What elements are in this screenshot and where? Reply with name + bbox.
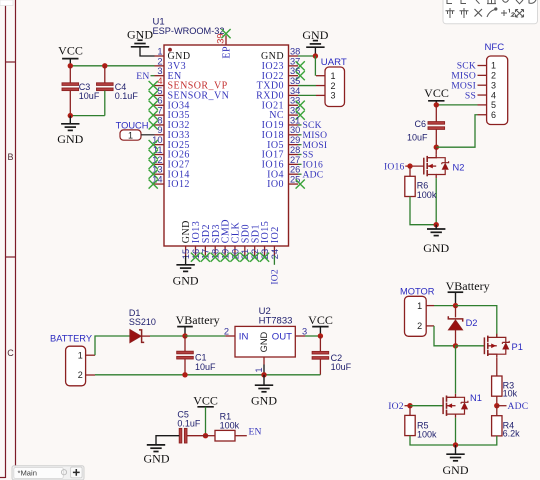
frame bottom-left corner line — [0, 477, 6, 479]
wire ground flag stem to node — [314, 47, 316, 56]
U1 pin 27 (IO16) — [262, 155, 301, 171]
U1 pin 35 (TXD0) — [257, 76, 301, 92]
wire N1 source down to GND rail — [455, 418, 457, 445]
U1 pin 2 (3V3) — [155, 56, 187, 72]
resistor R3 — [492, 376, 502, 396]
wire N2 source down to GND node — [435, 178, 437, 225]
net label MOSI at U1 pin 29 — [298, 144, 302, 146]
junction node GND/C3 bottom — [68, 113, 73, 118]
svg-text:ADC: ADC — [303, 169, 324, 180]
wire VCC rail to pin 2 (3V3) — [70, 65, 154, 67]
wire MOTOR pin1 to VBattery node — [434, 305, 456, 307]
svg-text:IO2: IO2 — [270, 269, 281, 285]
ground (U2) — [251, 375, 277, 408]
U1 pin 6 (IO34) — [149, 96, 190, 112]
power flag VCC (EN divider) — [193, 394, 218, 408]
wire U1 pin 38 to node — [298, 55, 315, 57]
power flag VCC (U2 out) — [308, 313, 333, 336]
svg-text:1: 1 — [491, 61, 496, 71]
U1 pin 9 (IO33) — [155, 125, 190, 141]
svg-text:2: 2 — [78, 370, 83, 380]
junction node C4 top — [102, 63, 107, 68]
svg-text:3: 3 — [491, 80, 496, 90]
U1 pin 1 (GND) — [155, 46, 191, 62]
U1 pin 10 (IO25) — [149, 135, 190, 151]
svg-text:VCC: VCC — [424, 86, 449, 100]
U1 pin 21 (SD0) bottom — [240, 224, 251, 262]
svg-text:31: 31 — [290, 115, 300, 125]
svg-text:7: 7 — [157, 106, 162, 116]
net label SCK at U1 pin 31 — [298, 124, 302, 126]
U1 pin 18 (SD3) bottom — [211, 224, 222, 262]
toolbar row2 icon: pen/wire — [487, 8, 497, 17]
wire RXD0 (pin34) to UART pin 3 — [298, 94, 316, 96]
wire N2 drain to C6 node — [435, 147, 437, 154]
connector UART — [316, 57, 347, 106]
U1 pin 25 (IO0) — [267, 174, 305, 190]
wire R5 top lead — [409, 406, 411, 416]
junction node C5/R1 — [203, 433, 208, 438]
svg-text:NFC: NFC — [485, 42, 505, 53]
wire VCC stem to node — [435, 101, 437, 105]
net label ADC — [497, 405, 507, 407]
top-left corner white box — [0, 0, 13, 6]
svg-text:26: 26 — [290, 165, 300, 175]
regulator U2 HT7833 — [224, 306, 307, 372]
svg-text:100k: 100k — [220, 421, 240, 431]
svg-text:2: 2 — [157, 56, 162, 66]
svg-text:0.1uF: 0.1uF — [115, 91, 139, 101]
svg-text:27: 27 — [290, 155, 300, 165]
U1 pin 15 (GND) bottom — [181, 220, 192, 259]
svg-text:6.2k: 6.2k — [503, 428, 521, 438]
svg-text:1: 1 — [157, 46, 162, 56]
sheet frame outer border line — [5, 0, 7, 478]
toolbar row2 icon: net flag 1 — [446, 8, 455, 18]
svg-text:1: 1 — [330, 71, 335, 81]
svg-text:MOTOR: MOTOR — [400, 286, 435, 296]
svg-text:3: 3 — [330, 91, 335, 101]
toolbar row2 icon: net flag 2 — [460, 8, 469, 18]
svg-text:GND: GND — [57, 132, 83, 146]
ground flag (U1 pin 38) — [302, 28, 328, 47]
svg-text:100k: 100k — [417, 430, 437, 440]
power flag VBattery — [176, 313, 220, 336]
svg-text:IO2: IO2 — [270, 226, 281, 243]
U1 pin 20 (CLK) bottom — [230, 222, 241, 262]
chip U1 pin-1 marker dot — [168, 48, 172, 52]
capacitor C5 — [177, 409, 205, 443]
ground (U1 pin 15) — [173, 265, 199, 288]
svg-text:4: 4 — [491, 90, 496, 100]
U1 pin 34 (RXD0) — [256, 86, 300, 102]
sheet tab bar panel — [12, 466, 84, 480]
U1 pin 11 (IO26) — [149, 145, 190, 161]
junction node D2/gate rail — [453, 343, 458, 348]
U1 pin 24 (IO2) bottom — [270, 226, 281, 259]
junction node N2 gate / R6 — [407, 163, 412, 168]
net label IO2 at U1 pin 24 — [273, 256, 275, 265]
capacitor C1 — [177, 336, 216, 375]
svg-text:8: 8 — [157, 115, 162, 125]
svg-text:VCC: VCC — [58, 44, 83, 58]
wire R3 bottom to ADC node — [496, 396, 498, 406]
svg-text:B: B — [7, 152, 13, 162]
wire VCC stem down to node — [205, 407, 207, 436]
diode D1 — [129, 308, 156, 343]
junction node VBattery/C1 — [182, 333, 187, 338]
svg-text:2: 2 — [417, 321, 422, 331]
svg-text:10uF: 10uF — [331, 362, 352, 372]
net port TOUCH — [116, 121, 149, 141]
transistor N1 (N-MOSFET) — [443, 393, 482, 418]
svg-text:3: 3 — [157, 66, 162, 76]
ground (C5) — [144, 445, 170, 466]
svg-text:N2: N2 — [453, 162, 465, 172]
resistor R1 — [206, 411, 247, 441]
svg-text:VBattery: VBattery — [446, 279, 490, 293]
junction node pin38/UART — [313, 53, 318, 58]
U1 pin 38 (GND) — [261, 46, 300, 62]
resistor R6 — [405, 176, 415, 196]
junction node VCC/C3 — [68, 63, 73, 68]
svg-text:D2: D2 — [466, 318, 478, 328]
U1 pin 13 (IO14) — [149, 165, 190, 181]
connector BATTERY — [50, 333, 95, 386]
wire R6 bottom to GND rail — [410, 197, 436, 225]
wire TXD0 (pin35) to UART pin 2 — [298, 85, 316, 87]
svg-text:1: 1 — [417, 301, 422, 311]
U1 pin 5 (SENSOR_VN) — [149, 86, 230, 102]
svg-text:P1: P1 — [512, 342, 523, 352]
svg-text:38: 38 — [290, 46, 300, 56]
U1 pin 29 (IO5) — [267, 135, 300, 151]
junction node GND (NFC section) — [434, 222, 439, 227]
wire IO2 to N1 gate — [405, 405, 411, 407]
wire N1 drain up to gate rail node — [455, 346, 457, 394]
junction node VCC/C2 — [318, 333, 323, 338]
svg-text:C6: C6 — [414, 119, 426, 129]
junction node VCC/C6 top — [434, 102, 439, 107]
svg-text:IO2: IO2 — [388, 401, 404, 412]
svg-text:2: 2 — [491, 71, 496, 81]
sheet frame inner border line — [15, 0, 17, 466]
svg-text:10uF: 10uF — [79, 91, 100, 101]
wire R4 bottom to GND rail — [456, 436, 497, 445]
wire MOTOR pin2 jog to gate rail — [434, 326, 456, 346]
svg-text:GND: GND — [173, 274, 199, 288]
wire R5 bottom to GND rail — [410, 436, 456, 445]
junction node C1 bottom — [182, 372, 187, 377]
power flag VCC (NFC) — [424, 86, 449, 101]
svg-text:0.1uF: 0.1uF — [177, 419, 201, 429]
wire U2 GND pin to rail — [263, 365, 265, 375]
svg-text:N1: N1 — [470, 393, 482, 403]
svg-text:35: 35 — [290, 76, 300, 86]
U1 pin 7 (IO35) — [149, 106, 190, 122]
svg-text:GND: GND — [259, 331, 269, 352]
net label ADC at U1 pin 26 — [298, 173, 302, 175]
svg-text:28: 28 — [290, 145, 300, 155]
toolbar row1 partial icons — [447, 0, 536, 4]
svg-text:1: 1 — [128, 130, 133, 140]
svg-text:R6: R6 — [417, 180, 429, 190]
toolbar panel — [443, 0, 538, 24]
U1 pin 19 (CMD) bottom — [220, 219, 231, 262]
wire IO16 to N2 gate — [405, 165, 424, 167]
wire node down to UART pin 1 — [314, 56, 316, 76]
U1 pin 32 (NC) — [269, 106, 305, 122]
svg-text:4: 4 — [157, 76, 162, 86]
U1 pin 12 (IO27) — [149, 155, 190, 171]
transistor N2 (N-MOSFET) — [424, 154, 465, 178]
svg-text:EN: EN — [136, 71, 149, 82]
net label EN at U1 pin 3 — [151, 75, 155, 77]
svg-text:IO0: IO0 — [267, 179, 284, 190]
net label SS at U1 pin 28 — [298, 154, 302, 156]
connector MOTOR — [400, 286, 435, 336]
transistor P1 (P-MOSFET) — [484, 334, 522, 358]
svg-text:GND: GND — [423, 241, 449, 255]
add-sheet plus button — [71, 467, 83, 478]
U1 pin 33 (IO21) — [262, 96, 305, 112]
wire C6 bottom node to NFC pin 6 — [436, 115, 477, 147]
svg-text:IO12: IO12 — [168, 179, 190, 190]
U1 pin 17 (SD2) bottom — [201, 224, 212, 262]
svg-text:ESP-WROOM-32: ESP-WROOM-32 — [153, 26, 225, 36]
svg-text:EP: EP — [221, 46, 232, 59]
svg-text:IN: IN — [239, 332, 249, 343]
capacitor C4 — [97, 66, 139, 116]
svg-text:100k: 100k — [417, 190, 437, 200]
U1 pin 22 (SD1) bottom — [250, 224, 261, 262]
U1 pin 39 (EP) top — [216, 29, 233, 59]
U1 pin 8 (IO32) — [149, 115, 190, 131]
wire VCC stem — [69, 59, 71, 66]
svg-text:5: 5 — [157, 86, 162, 96]
U1 pin 26 (IO4) — [267, 165, 300, 181]
power flag VBattery (motor) — [446, 279, 490, 306]
wire U1 pin 15 to ground — [185, 256, 187, 265]
svg-text:BATTERY: BATTERY — [50, 333, 92, 343]
wire BATTERY pin1 up to diode rail — [95, 336, 130, 355]
connector NFC — [478, 42, 508, 125]
junction node C6 bottom / N2 drain — [434, 145, 439, 150]
svg-text:SS: SS — [465, 90, 476, 101]
U1 pin 4 (SENSOR_VP) — [149, 76, 228, 92]
svg-text:30: 30 — [290, 125, 300, 135]
U1 pin 16 (IO13) bottom — [191, 221, 202, 262]
wire VCC node to NFC pin 5 — [436, 104, 477, 106]
wire C4 bottom to GND node — [70, 115, 105, 117]
toolbar row2 icon: drag/move cross — [516, 10, 524, 18]
svg-text:VCC: VCC — [193, 394, 218, 408]
wire C5 left to ground — [156, 436, 179, 445]
svg-text:9: 9 — [157, 125, 162, 135]
wire GND to U1 pin 1 — [140, 47, 155, 56]
svg-text:C: C — [7, 348, 14, 358]
U1 pin 31 (IO19) — [262, 115, 301, 131]
svg-text:5: 5 — [491, 100, 496, 110]
svg-text:3: 3 — [302, 326, 307, 336]
svg-text:GND: GND — [144, 451, 170, 465]
svg-text:GND: GND — [443, 463, 469, 477]
svg-text:HT7833: HT7833 — [259, 316, 293, 327]
capacitor C3 — [62, 66, 100, 116]
wire U2 OUT to VCC node — [305, 335, 320, 337]
svg-text:OUT: OUT — [272, 332, 292, 343]
wire P1 source down to R3 — [496, 358, 498, 376]
svg-text:10uF: 10uF — [407, 133, 428, 143]
U1 pin 37 (IO23) — [262, 56, 305, 72]
U1 pin 3 (EN) — [155, 66, 182, 82]
U1 pin 28 (IO17) — [262, 145, 301, 161]
svg-text:34: 34 — [290, 86, 300, 96]
junction node ADC — [494, 403, 499, 408]
svg-text:VCC: VCC — [308, 313, 333, 327]
junction node U2 GND — [261, 372, 266, 377]
sheet tab *Main — [14, 467, 67, 478]
frame row divider A/B — [6, 61, 16, 63]
U1 pin 14 (IO12) — [149, 174, 190, 190]
svg-text:VBattery: VBattery — [176, 313, 220, 327]
svg-text:10uF: 10uF — [195, 362, 216, 372]
svg-text:10k: 10k — [503, 389, 518, 399]
svg-text:EN: EN — [249, 427, 262, 438]
junction node GND (motor section) — [453, 442, 458, 447]
frame row divider B/C — [6, 256, 16, 258]
svg-text:1: 1 — [254, 367, 264, 372]
resistor R5 — [405, 415, 415, 435]
resistor R4 — [492, 416, 502, 436]
svg-text:GND: GND — [251, 393, 277, 407]
U1 pin 30 (IO18) — [262, 125, 301, 141]
wire VBattery node to U2 IN — [185, 335, 225, 337]
svg-text:IO16: IO16 — [384, 161, 405, 172]
ground (NFC section) — [423, 225, 449, 256]
svg-text:TOUCH: TOUCH — [116, 121, 149, 131]
wire bottom ground rail (battery section) — [95, 374, 320, 376]
wire gate rail to P1 gate — [456, 345, 485, 347]
junction node VBattery/D2 — [453, 303, 458, 308]
toolbar row2 icon: no-connect X — [475, 9, 483, 17]
svg-text:2: 2 — [330, 81, 335, 91]
net label MISO at U1 pin 30 — [298, 134, 302, 136]
capacitor C2 — [312, 336, 352, 375]
junction node IO2/R5 — [407, 403, 412, 408]
svg-text:ADC: ADC — [508, 401, 529, 412]
chip U1 body — [164, 45, 289, 246]
net label IO16 at U1 pin 27 — [298, 163, 302, 165]
wire R6 top lead — [409, 166, 411, 176]
svg-text:*Main: *Main — [18, 469, 37, 478]
wire TOUCH port to U1 pin 9 — [141, 134, 155, 136]
svg-text:6: 6 — [157, 96, 162, 106]
power flag VCC (top-left) — [58, 44, 83, 59]
ground (motor section) — [443, 445, 469, 477]
U1 pin 23 (IO15) bottom — [260, 221, 271, 262]
wire gate wire to N1 — [410, 405, 443, 407]
wire D1 cathode to VBattery node — [150, 335, 185, 337]
wire VBattery node to P1 drain — [456, 306, 497, 338]
svg-text:SS210: SS210 — [129, 317, 156, 327]
toolbar row2 icon: net label — [501, 9, 515, 16]
wire R4 top lead — [496, 406, 498, 416]
ground (below C3) — [57, 116, 83, 147]
capacitor C6 — [407, 105, 445, 147]
wire BATTERY pin2 to rail — [94, 374, 96, 376]
svg-text:1: 1 — [78, 350, 83, 360]
svg-text:29: 29 — [290, 135, 300, 145]
U1 pin 36 (IO22) — [262, 66, 305, 82]
svg-text:2: 2 — [224, 326, 229, 336]
ground flag (U1 pin 1) — [127, 28, 153, 47]
svg-text:6: 6 — [491, 110, 496, 120]
diode D2 — [448, 306, 477, 346]
